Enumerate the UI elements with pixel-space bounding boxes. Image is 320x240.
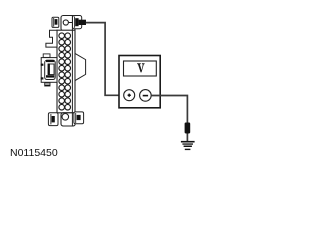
connector C1 body top cap: [61, 16, 75, 31]
voltmeter plus terminal: [124, 90, 135, 101]
voltmeter V1 outer box: [119, 56, 160, 108]
connector C1 bottom-left mounting tab: [48, 113, 58, 126]
test probe black plug into pin: [79, 20, 86, 25]
connector C1 inner right wall line: [71, 16, 73, 126]
ground symbol G1: [181, 141, 195, 150]
connector C1 pin grid circles (2 cols x 12 rows): [59, 33, 71, 110]
inline connector sleeve on ground wire: [185, 123, 191, 134]
connector C1 top-left mounting tab: [52, 17, 59, 27]
connector C1 right lock trapezoid: [75, 53, 86, 80]
wire from minus terminal to ground: [151, 96, 187, 124]
voltmeter V label: [137, 63, 145, 72]
connector C1 left side connector protrusion: [41, 54, 57, 86]
connector C1 top pin stub line: [68, 22, 72, 24]
voltmeter minus terminal: [140, 90, 152, 102]
connector C1 body middle shell: [57, 30, 75, 113]
wire from probe to voltmeter plus terminal: [86, 23, 124, 96]
connector C1 left step detail: [46, 30, 57, 47]
connector C1 bottom single cavity circle: [62, 114, 69, 121]
voltmeter display window: [124, 61, 157, 76]
svg-text:N0115450: N0115450: [10, 147, 58, 159]
connector C1 body bottom cap: [61, 113, 75, 126]
wire below sleeve: [186, 134, 188, 142]
connector C1 bottom-right mounting tab: [74, 112, 84, 124]
connector C1 top-right mounting tab: [73, 16, 82, 29]
connector C1 top test pin cavity circle: [63, 20, 68, 25]
